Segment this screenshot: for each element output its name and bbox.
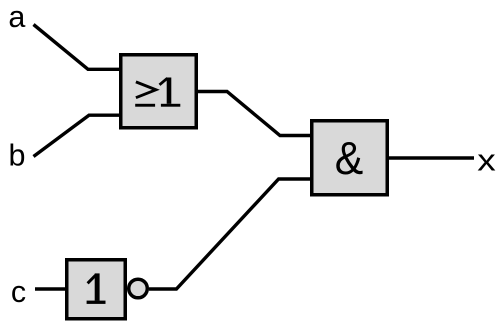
NOT gate U3 label "1" — [87, 273, 106, 304]
OR gate U1 label ">=1" — [135, 78, 180, 107]
wire AND gate output to x — [388, 156, 474, 159]
svg-text:b: b — [9, 139, 26, 173]
wire OR gate output to AND gate input 1 — [197, 92, 311, 136]
svg-text:a: a — [8, 0, 25, 34]
svg-text:&: & — [335, 132, 364, 184]
svg-text:c: c — [11, 275, 26, 309]
wire b to OR gate input 2 — [34, 115, 121, 156]
wire c to NOT gate input — [35, 287, 66, 290]
svg-text:x: x — [477, 143, 496, 177]
NOT gate U3 box — [67, 260, 126, 319]
wire NOT gate output to AND gate input 2 — [149, 179, 311, 289]
OR gate U1 box — [121, 55, 197, 128]
NOT gate U3 inversion bubble — [129, 279, 148, 298]
AND gate U2 box — [312, 121, 388, 195]
wire a to OR gate input 1 — [34, 25, 121, 70]
